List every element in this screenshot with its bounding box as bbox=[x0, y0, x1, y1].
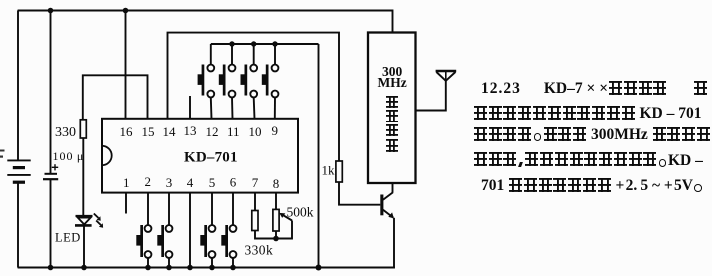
pushbutton S3 (pin10) bbox=[241, 44, 258, 119]
svg-text:8: 8 bbox=[273, 176, 280, 191]
LED D1 bbox=[75, 214, 103, 228]
node ground / S6 bbox=[166, 265, 172, 271]
node ground / common bbox=[316, 265, 322, 271]
pushbutton S2 (pin11) bbox=[219, 44, 236, 119]
wire buttons common rail (top) bbox=[211, 43, 319, 45]
potentiometer R3 500k bbox=[273, 209, 279, 231]
svg-text:MHz: MHz bbox=[378, 75, 407, 90]
wire 1k to transistor base bbox=[339, 182, 380, 205]
caption line 4 bbox=[473, 152, 712, 170]
RF transmitter block 300MHz bbox=[368, 33, 416, 184]
caption line 2 bbox=[473, 105, 712, 123]
svg-text:330k: 330k bbox=[245, 243, 274, 258]
caption line 3 bbox=[473, 126, 712, 144]
IC notch bbox=[102, 146, 112, 165]
svg-text:500k: 500k bbox=[287, 205, 314, 220]
wire top supply rail bbox=[18, 11, 393, 33]
node ground / S7 bbox=[209, 265, 215, 271]
svg-text:12: 12 bbox=[206, 124, 219, 139]
wire pin1 stub bbox=[125, 193, 127, 214]
svg-text:9: 9 bbox=[272, 123, 279, 138]
svg-text:14: 14 bbox=[163, 124, 177, 139]
svg-text:6: 6 bbox=[230, 175, 237, 190]
wire wiper of 500k bbox=[276, 221, 292, 239]
svg-text:LED: LED bbox=[55, 231, 81, 245]
svg-text:15: 15 bbox=[142, 124, 155, 139]
node top rail / pin16 bbox=[123, 8, 129, 14]
svg-text:1k: 1k bbox=[322, 163, 336, 178]
caption line 1 bbox=[481, 80, 712, 98]
node ground / S8 bbox=[230, 265, 236, 271]
svg-text:100 μ: 100 μ bbox=[53, 149, 85, 163]
node junction 330k/500k bbox=[273, 236, 279, 242]
svg-text:KD–701: KD–701 bbox=[184, 150, 238, 166]
svg-text:10: 10 bbox=[249, 124, 262, 139]
resistor R4 1k bbox=[336, 161, 342, 182]
node rail / S2 bbox=[229, 41, 234, 46]
wire pin4 to ground bbox=[189, 193, 191, 268]
pin numbers top row bbox=[120, 123, 279, 139]
antenna E bbox=[436, 71, 457, 81]
scan artifact left edge bbox=[0, 150, 5, 152]
pushbutton S1 (pin12) bbox=[198, 44, 215, 119]
wire RF block to antenna bbox=[416, 81, 446, 111]
node rail / S4 bbox=[272, 41, 277, 46]
wire pin14 loop to resistor 1k bbox=[168, 33, 340, 161]
node ground / pin4 bbox=[187, 265, 193, 271]
wire bottom ground rail bbox=[18, 267, 395, 269]
RF block chinese chars (she pin fa she) bbox=[386, 95, 398, 113]
capacitor C1 100u bbox=[43, 11, 58, 268]
wire pin8 to potentiometer 500k bbox=[275, 193, 277, 210]
node ground / LED bbox=[81, 265, 87, 271]
svg-text:3: 3 bbox=[166, 175, 173, 190]
wire pin16 to top rail bbox=[125, 11, 127, 120]
pushbutton S6 (pin3) bbox=[157, 193, 172, 268]
wire pin7 to resistor 330k bbox=[254, 193, 256, 211]
wire pin13 stub bbox=[189, 96, 191, 119]
caption line 5 bbox=[481, 177, 712, 195]
pin numbers bottom row bbox=[123, 174, 279, 191]
wire 330k bottom bbox=[255, 231, 276, 239]
pushbutton S4 (pin9) bbox=[262, 44, 279, 119]
wire emitter to ground bbox=[393, 218, 395, 269]
svg-text:2: 2 bbox=[145, 174, 152, 189]
wire LED to ground rail bbox=[83, 225, 85, 267]
IC U1 KD-701 bbox=[102, 119, 298, 193]
pushbutton S8 (pin6) bbox=[221, 193, 236, 268]
resistor R2 330k bbox=[252, 211, 258, 231]
svg-text:1: 1 bbox=[123, 175, 130, 190]
svg-text:4: 4 bbox=[187, 175, 194, 190]
wire resistor 330 to LED bbox=[82, 138, 84, 216]
svg-text:330: 330 bbox=[55, 125, 76, 140]
pushbutton S7 (pin5) bbox=[200, 193, 215, 268]
svg-text:16: 16 bbox=[120, 124, 134, 139]
wire 500k bottom bbox=[275, 231, 277, 239]
svg-text:5: 5 bbox=[209, 175, 216, 190]
wire pin15 to resistor 330 bbox=[83, 75, 148, 120]
node top rail / capacitor bbox=[48, 8, 54, 14]
wire common rail to ground bbox=[318, 44, 320, 268]
transistor Q1 bbox=[380, 192, 394, 218]
wire collector to RF block bbox=[392, 183, 394, 193]
resistor R1 330 bbox=[80, 120, 86, 138]
battery B bbox=[7, 11, 30, 268]
node ground / capacitor bbox=[48, 265, 54, 271]
svg-text:7: 7 bbox=[252, 175, 259, 190]
svg-text:13: 13 bbox=[184, 123, 197, 138]
pushbutton S5 (pin2) bbox=[136, 193, 151, 268]
node ground / S5 bbox=[145, 265, 151, 271]
svg-text:11: 11 bbox=[227, 124, 240, 139]
node rail / S3 bbox=[251, 41, 256, 46]
